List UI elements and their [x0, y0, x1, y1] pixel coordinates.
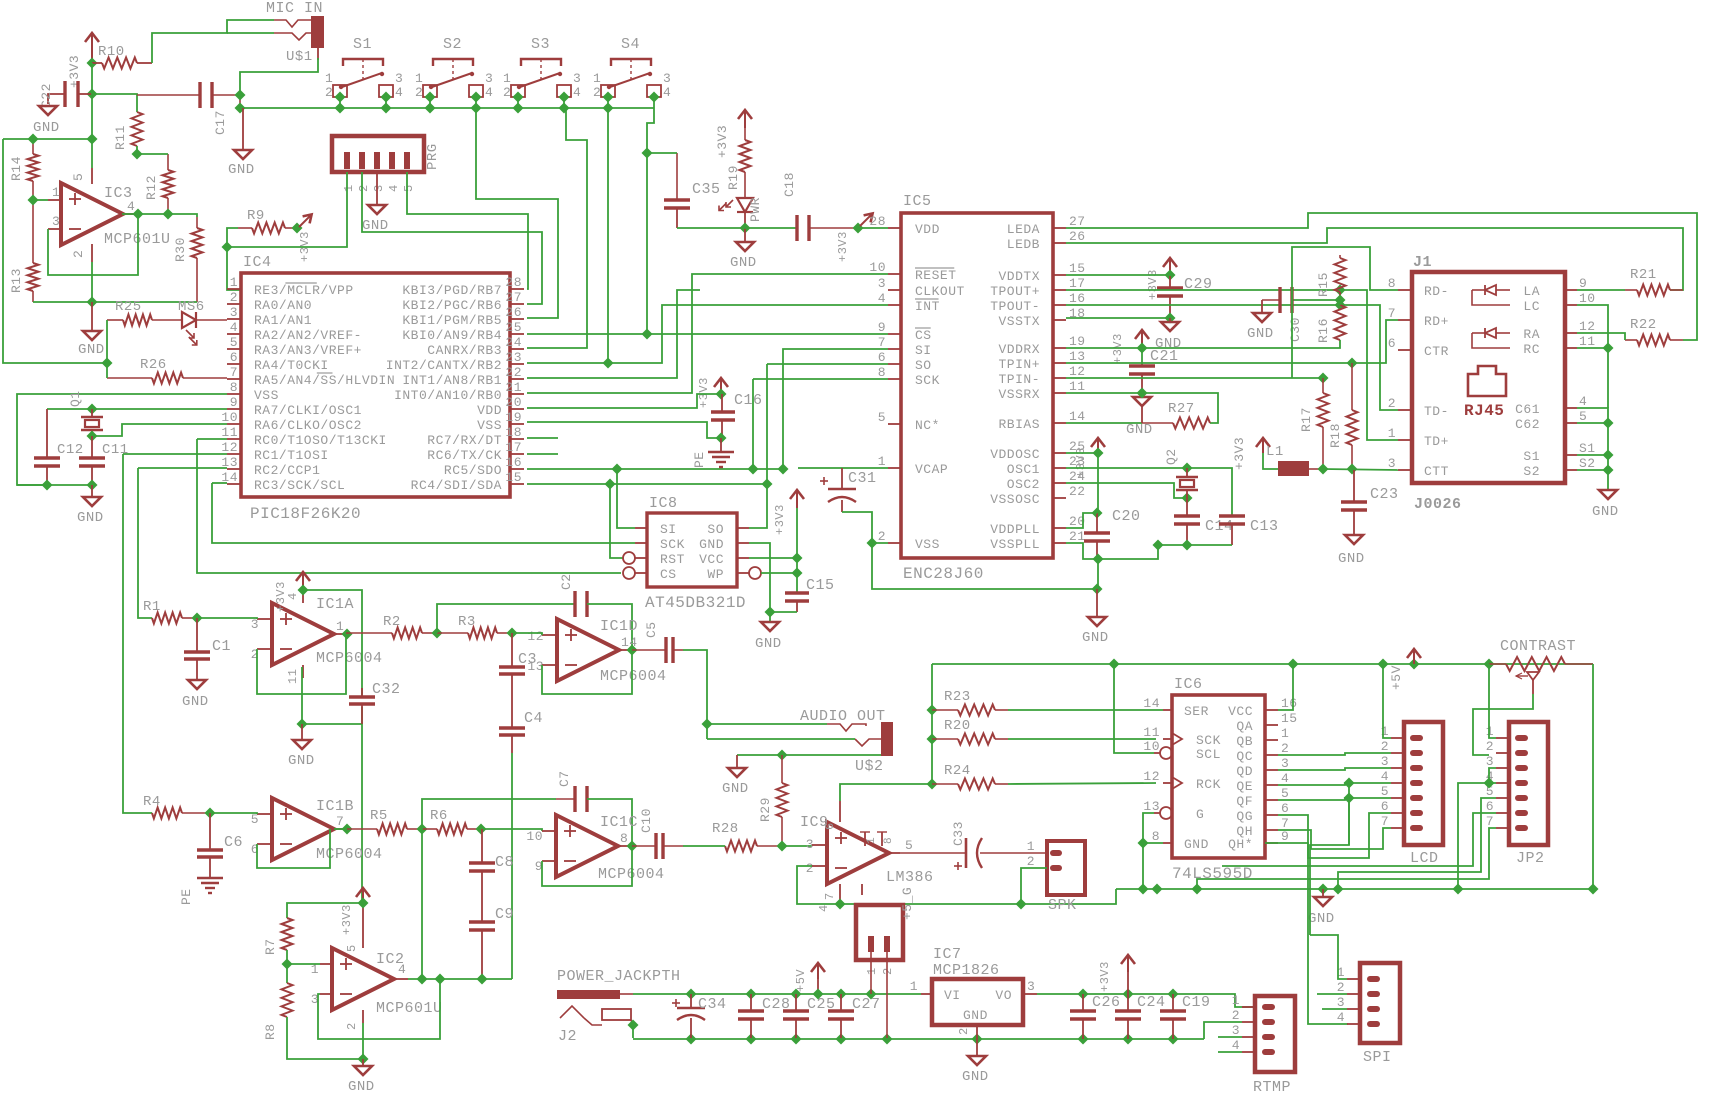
svg-text:5: 5 — [345, 944, 359, 952]
wire VSSRX to R27 — [1066, 393, 1218, 423]
svg-text:VSS: VSS — [915, 537, 940, 552]
inductor L1 — [1266, 444, 1323, 476]
svg-text:S2: S2 — [443, 36, 462, 53]
svg-text:G: G — [1196, 807, 1204, 822]
junction dot IC1C out — [626, 840, 637, 851]
svg-text:RC: RC — [1523, 342, 1540, 357]
svg-text:R30: R30 — [173, 237, 188, 262]
ground GND (C29) — [1155, 318, 1182, 352]
junction dot IC2 gnd — [357, 1053, 368, 1064]
junction dot C20 bottom — [1092, 553, 1103, 564]
capacitor C17 — [137, 82, 240, 135]
wire R15/R16 mid — [1292, 299, 1340, 301]
wire pin9 to crystal — [47, 408, 227, 410]
ground GND (PRG) — [362, 172, 389, 234]
svg-text:S4: S4 — [621, 36, 640, 53]
power +3V3 (IC5 VDD) — [836, 213, 873, 262]
ground GND (jack) — [722, 755, 749, 797]
junction dot MCLR/PRG — [221, 241, 232, 252]
wire VDD to +3V3 C16 — [527, 394, 721, 408]
wire TPIN+ to RD+ — [1066, 320, 1398, 363]
op-amp IC9 LM386 — [800, 801, 934, 912]
svg-text:RA2/AN2/VREF-: RA2/AN2/VREF- — [254, 328, 362, 343]
svg-text:+3V3: +3V3 — [340, 904, 354, 935]
svg-text:PWR: PWR — [748, 197, 763, 222]
wire flash GND — [749, 543, 770, 612]
switch S1 — [325, 36, 403, 108]
svg-text:SCK: SCK — [915, 373, 940, 388]
wire RC0 to flash CS — [197, 439, 621, 573]
wire G to gnd — [1143, 813, 1154, 888]
svg-text:2: 2 — [1381, 739, 1389, 754]
svg-text:C24: C24 — [1137, 994, 1166, 1011]
wire rail to R26 — [106, 363, 108, 378]
svg-text:TPIN+: TPIN+ — [998, 357, 1040, 372]
svg-text:RA6/CLKO/OSC2: RA6/CLKO/OSC2 — [254, 418, 362, 433]
svg-text:RC1/T1OSI: RC1/T1OSI — [254, 448, 329, 463]
svg-text:2: 2 — [325, 85, 333, 100]
potentiometer CONTRAST — [1489, 638, 1593, 694]
svg-text:+5_G: +5_G — [900, 887, 915, 920]
label AUDIO OUT — [800, 708, 886, 725]
svg-text:VSS: VSS — [477, 418, 502, 433]
svg-text:2: 2 — [230, 290, 238, 305]
capacitor C29 — [1157, 276, 1213, 318]
wire J1 pin11 — [1577, 347, 1608, 349]
svg-text:WP: WP — [707, 567, 724, 582]
junction dots IC3 output — [132, 208, 173, 219]
svg-text:3: 3 — [1381, 754, 1389, 769]
svg-text:2: 2 — [1027, 854, 1035, 869]
svg-text:QH*: QH* — [1228, 837, 1253, 852]
svg-text:L1: L1 — [1266, 444, 1284, 460]
wire bottom gnd rail — [633, 1038, 1204, 1040]
junction dots +3V3/mic bias node — [86, 57, 97, 99]
label U$1 — [286, 49, 313, 65]
wire TX stub — [527, 453, 558, 455]
resistor R17 — [1299, 378, 1329, 468]
svg-text:R27: R27 — [1168, 401, 1195, 417]
wire VSSTX to gnd — [1066, 317, 1170, 319]
svg-text:9: 9 — [1579, 276, 1587, 291]
power +3V3 (mic bias) — [67, 33, 99, 88]
svg-text:C10: C10 — [639, 808, 654, 833]
ground GND (IC7) — [962, 1038, 989, 1085]
wire ENC CS to RB4 — [527, 333, 888, 335]
connector SPI — [1337, 963, 1400, 1043]
svg-text:RA5/AN4/SS/HLVDIN: RA5/AN4/SS/HLVDIN — [254, 373, 395, 388]
svg-text:5: 5 — [71, 173, 86, 181]
svg-text:NC*: NC* — [915, 418, 940, 433]
svg-text:28: 28 — [869, 214, 886, 229]
junction dots R col — [926, 704, 937, 789]
svg-text:MCP6004: MCP6004 — [600, 668, 667, 685]
wire J1 pin10 — [1577, 305, 1608, 408]
svg-text:2: 2 — [878, 529, 886, 544]
junction dot R2/R3 — [431, 627, 442, 638]
svg-text:1: 1 — [336, 619, 344, 634]
junction dot IC1B out — [341, 823, 352, 834]
svg-text:VSSOSC: VSSOSC — [990, 492, 1040, 507]
svg-text:RTMP: RTMP — [1253, 1079, 1291, 1094]
svg-text:1: 1 — [325, 71, 333, 86]
capacitor C9 — [469, 906, 514, 979]
svg-text:R10: R10 — [98, 44, 125, 60]
svg-text:20: 20 — [505, 395, 522, 410]
junction dot R9/+3V3 — [291, 222, 302, 233]
svg-text:7: 7 — [878, 335, 886, 350]
junction dot C20 top — [1091, 507, 1102, 518]
connector J1 RJ45 box — [1388, 272, 1596, 483]
svg-text:7: 7 — [336, 814, 344, 829]
power +3V3 (IC8) — [773, 490, 804, 535]
svg-text:GND: GND — [182, 694, 209, 710]
switch S4 — [593, 36, 671, 108]
svg-text:VCC: VCC — [699, 552, 724, 567]
svg-text:+3V3: +3V3 — [773, 504, 787, 535]
svg-text:LCD: LCD — [1410, 850, 1439, 867]
svg-text:2: 2 — [503, 85, 511, 100]
svg-text:RC7/RX/DT: RC7/RX/DT — [427, 433, 502, 448]
svg-text:PIC18F26K20: PIC18F26K20 — [250, 505, 361, 523]
svg-text:TPOUT-: TPOUT- — [990, 299, 1040, 314]
capacitor C2 — [559, 573, 632, 650]
svg-text:6: 6 — [878, 350, 886, 365]
resistor R19 — [726, 128, 751, 198]
svg-text:7: 7 — [1388, 306, 1396, 321]
junction dot R3/C3 — [506, 627, 517, 638]
svg-text:R26: R26 — [140, 357, 167, 373]
wire C32 to IC2 node — [361, 707, 363, 903]
wire QH* to SPI pin4 — [1265, 843, 1348, 1024]
junction dot sleeve — [234, 89, 245, 100]
resistor R25 — [107, 299, 182, 326]
power +5V (LCD) — [1389, 649, 1421, 690]
resistor R30 — [173, 217, 203, 302]
power +3V3 (OSC) — [1074, 438, 1105, 478]
svg-text:SI: SI — [660, 522, 677, 537]
junction dots LM386 gnd — [834, 898, 1026, 909]
wire PRG5/PGD — [407, 172, 528, 289]
svg-text:R23: R23 — [944, 689, 971, 705]
svg-text:+3V3: +3V3 — [836, 231, 850, 262]
svg-text:RC0/T1OSO/T13CKI: RC0/T1OSO/T13CKI — [254, 433, 387, 448]
capacitor C27 — [828, 994, 881, 1038]
svg-text:R7: R7 — [263, 938, 278, 955]
junction dots switch bus — [234, 102, 613, 113]
svg-text:+3V3: +3V3 — [697, 377, 711, 408]
svg-text:+3V3: +3V3 — [67, 55, 82, 88]
svg-text:1: 1 — [1388, 426, 1396, 441]
microphone jack U$1 MIC IN — [274, 16, 324, 60]
switch S3 — [503, 36, 581, 108]
wire Q1 to pin10 — [92, 424, 227, 436]
wire PRG1 to MCLR — [227, 172, 347, 247]
wire C31 to VSS — [842, 512, 888, 543]
svg-text:12: 12 — [221, 440, 238, 455]
svg-text:R1: R1 — [143, 599, 161, 615]
capacitor C1 — [184, 618, 231, 680]
capacitor C7 — [556, 770, 632, 846]
resistor R27 — [1142, 401, 1210, 429]
wire +5V line — [932, 663, 1593, 665]
wire IC3 feedback — [48, 214, 138, 275]
junction dot R7/R8 — [281, 958, 292, 969]
label MIC IN — [266, 0, 323, 17]
wire WP — [761, 572, 797, 574]
svg-text:RCK: RCK — [1196, 777, 1221, 792]
wire JP2 pin4 — [1489, 782, 1496, 784]
wire RTMP pin3 — [1218, 1036, 1242, 1038]
svg-text:5: 5 — [905, 838, 913, 853]
wire S4 to IC4 KBI0/CS net — [647, 108, 654, 334]
label IC7 — [933, 946, 962, 963]
wire IC1C feedback — [542, 846, 632, 886]
op-amp IC1D — [527, 618, 666, 685]
capacitor C4 — [499, 700, 543, 753]
wire +3V3 rail to IC3 V+ — [91, 63, 93, 168]
svg-text:2: 2 — [1486, 739, 1494, 754]
wire IC1B feedback — [257, 829, 330, 868]
junction dot C16 bottom — [715, 432, 726, 443]
svg-text:10: 10 — [1143, 739, 1160, 754]
resistor R20 — [932, 718, 1008, 745]
junction dot C21/VSSRX — [1136, 387, 1147, 398]
resistor R12 — [144, 154, 174, 214]
wire VSSPLL — [1066, 543, 1098, 559]
connector JP2 — [1486, 722, 1548, 845]
svg-text:SCL: SCL — [1196, 747, 1221, 762]
svg-text:VDDOSC: VDDOSC — [990, 447, 1040, 462]
junction dot R14/R13 — [27, 194, 38, 205]
svg-text:14: 14 — [1069, 409, 1086, 424]
wire IC6 GND — [1143, 842, 1163, 844]
capacitor C5 — [632, 621, 683, 663]
svg-text:GND: GND — [1247, 326, 1274, 342]
svg-text:CANRX/RB3: CANRX/RB3 — [427, 343, 502, 358]
svg-text:OSC1: OSC1 — [1007, 462, 1040, 477]
wire VCAP net — [798, 467, 888, 469]
ground GND (IC1A) — [288, 724, 315, 769]
svg-text:RC3/SCK/SCL: RC3/SCK/SCL — [254, 478, 345, 493]
wire mic ring — [227, 32, 274, 34]
wire RTMP pin2 gnd — [1204, 1022, 1242, 1039]
svg-text:GND: GND — [1082, 630, 1109, 646]
wire IC1A feedback — [257, 634, 346, 694]
svg-text:CTT: CTT — [1424, 464, 1449, 479]
svg-text:IC1C: IC1C — [600, 814, 638, 831]
svg-text:R12: R12 — [144, 175, 159, 200]
svg-text:C33: C33 — [951, 821, 966, 846]
wire J1 S1 — [1577, 454, 1608, 456]
svg-text:7: 7 — [1486, 814, 1494, 829]
svg-text:74LS595D: 74LS595D — [1172, 865, 1253, 883]
label RJ45 — [1464, 402, 1504, 420]
svg-text:19: 19 — [1069, 334, 1086, 349]
wire divider to +in — [287, 963, 320, 965]
wire OSC1 net — [1066, 468, 1232, 516]
wire VSS pin8 net — [17, 394, 227, 485]
svg-text:VDDPLL: VDDPLL — [990, 522, 1040, 537]
wire J1 shield gnd — [1577, 408, 1608, 490]
svg-text:RC4/SDI/SDA: RC4/SDI/SDA — [411, 478, 502, 493]
junction dots CTT — [1317, 463, 1357, 474]
svg-text:+5V: +5V — [1389, 665, 1404, 690]
wire VDDTX — [1066, 274, 1170, 276]
svg-text:IC8: IC8 — [649, 495, 678, 512]
power +3V3 (C29) — [1146, 258, 1177, 300]
svg-text:5: 5 — [1281, 786, 1289, 801]
svg-text:12: 12 — [1143, 769, 1160, 784]
svg-text:R20: R20 — [944, 718, 971, 734]
svg-text:CTR: CTR — [1424, 344, 1449, 359]
svg-text:GND: GND — [228, 162, 255, 178]
IC U4 PIC18F26K20 box — [221, 273, 524, 497]
svg-text:R14: R14 — [9, 156, 24, 181]
svg-text:1: 1 — [878, 454, 886, 469]
svg-text:TD-: TD- — [1424, 404, 1449, 419]
svg-text:GND: GND — [1338, 551, 1365, 567]
power +3V3 (regulator out) — [1098, 955, 1135, 994]
wire +5V drop to resistors — [931, 664, 933, 784]
wire RBIAS — [1066, 422, 1142, 424]
svg-text:C16: C16 — [734, 392, 763, 409]
svg-text:+5V: +5V — [794, 969, 808, 992]
svg-text:4: 4 — [1381, 769, 1389, 784]
svg-text:GND: GND — [699, 537, 724, 552]
svg-text:MCP601U: MCP601U — [376, 1000, 443, 1017]
resistor R2 — [347, 614, 437, 639]
junction dots MOSI — [611, 463, 788, 474]
ground GND (rail) — [1308, 889, 1335, 927]
svg-text:RA7/CLKI/OSC1: RA7/CLKI/OSC1 — [254, 403, 362, 418]
svg-text:GND: GND — [78, 342, 105, 358]
svg-text:6: 6 — [1388, 336, 1396, 351]
wire to LM386 +in — [782, 845, 812, 847]
ground GND (C1) — [182, 680, 209, 710]
junction dot R6/C8 — [475, 823, 486, 834]
wire osc gnd net — [1158, 544, 1232, 546]
resistor R3 — [437, 614, 512, 639]
svg-text:15: 15 — [1069, 261, 1086, 276]
svg-text:INT2/CANTX/RB2: INT2/CANTX/RB2 — [386, 358, 502, 373]
svg-text:U$2: U$2 — [855, 758, 884, 775]
wire gnd rail — [1116, 888, 1593, 890]
ground GND (IC8/C15) — [755, 622, 782, 652]
svg-text:MS6: MS6 — [178, 299, 205, 315]
svg-text:VCC: VCC — [1228, 704, 1253, 719]
wire SCL pullup — [1114, 664, 1154, 753]
svg-text:4: 4 — [1232, 1038, 1240, 1053]
wire VCC to +5V — [1278, 664, 1293, 710]
svg-text:1: 1 — [342, 184, 356, 192]
svg-text:POWER_JACKPTH: POWER_JACKPTH — [557, 968, 681, 985]
wire ENC SCK — [753, 378, 888, 380]
op-amp IC3 — [48, 168, 171, 262]
resistor R11 — [113, 112, 143, 150]
svg-text:21: 21 — [1069, 529, 1086, 544]
svg-text:S1: S1 — [353, 36, 372, 53]
junction dot vref — [86, 296, 97, 307]
wire IC2 feedback — [318, 979, 440, 1039]
svg-text:4: 4 — [286, 592, 300, 600]
svg-text:2: 2 — [1388, 396, 1396, 411]
junction dot IC1A V- — [296, 718, 307, 729]
junction dot audio out — [701, 718, 712, 729]
svg-text:1: 1 — [1281, 726, 1289, 741]
wire R4 to +in — [210, 813, 257, 814]
op-amp IC1A — [251, 590, 383, 684]
connector J2 — [558, 1006, 633, 1045]
junction dot MISO — [761, 478, 772, 489]
wire MISO riser — [749, 364, 767, 528]
junction dot R15/R16 — [1334, 294, 1345, 305]
wire MISO net — [527, 483, 767, 485]
power +3V3 (C21) — [1111, 330, 1149, 364]
svg-text:R3: R3 — [458, 614, 476, 630]
capacitor C32 — [349, 681, 401, 724]
svg-text:C32: C32 — [372, 681, 401, 698]
svg-text:2: 2 — [957, 1027, 971, 1035]
wire C2 left — [437, 604, 575, 633]
power +3V3 (IC1A) — [274, 572, 310, 612]
svg-text:9: 9 — [878, 320, 886, 335]
svg-text:C15: C15 — [806, 577, 835, 594]
ground GND (IC5) — [1082, 589, 1109, 646]
resistor R29 — [758, 755, 788, 846]
wire VDDPLL — [1066, 513, 1097, 528]
junction dot IC2 V+ — [357, 897, 368, 908]
wire IC3 V- down — [91, 262, 93, 302]
svg-text:INT0/AN10/RB0: INT0/AN10/RB0 — [394, 388, 502, 403]
junction dot R29 bottom — [776, 840, 787, 851]
svg-text:12: 12 — [1069, 364, 1086, 379]
label JP2 — [1516, 850, 1545, 867]
junction dot +3V3/VDD — [852, 222, 863, 233]
earth PE (C6) — [179, 878, 223, 905]
junction dot S4L/INT — [602, 357, 613, 368]
wire QF to LCD5 — [1278, 798, 1391, 800]
svg-text:R22: R22 — [1630, 317, 1657, 333]
ground GND (IC3) — [78, 302, 105, 358]
svg-text:6: 6 — [823, 822, 837, 830]
wire RC2 stub — [138, 467, 227, 469]
svg-text:GND: GND — [722, 781, 749, 797]
power +3V3 (PWR LED) — [715, 110, 752, 158]
svg-text:R25: R25 — [115, 299, 142, 315]
svg-text:2: 2 — [357, 184, 371, 192]
svg-text:VDD: VDD — [477, 403, 502, 418]
svg-text:1: 1 — [415, 71, 423, 86]
svg-text:C14: C14 — [1205, 518, 1234, 535]
svg-text:25: 25 — [505, 320, 522, 335]
capacitor C35 — [664, 153, 721, 228]
svg-text:5: 5 — [1579, 409, 1587, 424]
svg-text:R16: R16 — [1316, 318, 1331, 343]
svg-text:8: 8 — [1388, 276, 1396, 291]
svg-text:S2: S2 — [1523, 464, 1540, 479]
wire +3V3 to L1 — [1263, 453, 1278, 469]
svg-text:C31: C31 — [848, 470, 877, 487]
svg-text:VSSRX: VSSRX — [998, 387, 1040, 402]
wire debounce to C35 — [647, 152, 677, 154]
svg-text:GND: GND — [33, 120, 60, 136]
svg-text:R13: R13 — [9, 268, 24, 293]
capacitor C14 — [1174, 498, 1234, 545]
wire TPIN- to RD- — [1066, 377, 1322, 379]
resistor R14 — [9, 139, 39, 200]
resistor R26 — [107, 357, 227, 384]
